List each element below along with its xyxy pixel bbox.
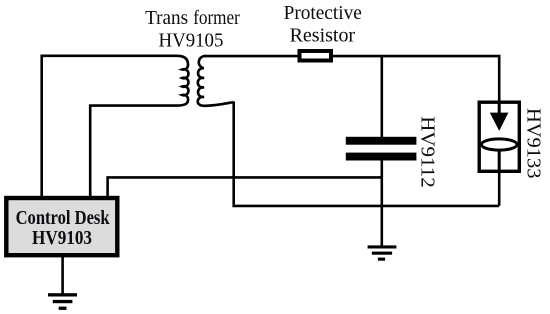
svg-text:Resistor: Resistor (290, 24, 356, 46)
svg-text:HV9133: HV9133 (523, 108, 545, 179)
wire: HV bus (secondary top through resistor to HV9133 corner) (204, 56, 499, 101)
transformer T1 HV9105 primary winding (177, 56, 188, 106)
ground symbol (control desk) (48, 293, 77, 310)
svg-text:Protective: Protective (284, 2, 362, 24)
capacitor HV9112 top plate (346, 137, 417, 145)
wire: ground bus (secondary return to HV9133) (232, 205, 499, 208)
ground symbol (capacitor node) (368, 245, 397, 260)
HV9133 internal stem lower (498, 144, 501, 171)
control desk HV9103 box (6, 198, 117, 255)
svg-text:HV9103: HV9103 (32, 227, 92, 249)
wire: secondary bottom down lead (232, 102, 235, 205)
svg-text:Control Desk: Control Desk (16, 207, 111, 229)
transformer T1 HV9105 secondary winding (198, 56, 234, 106)
HV9133 arrow stem (498, 102, 501, 119)
capacitor HV9112 bottom plate (346, 153, 417, 161)
wire: capacitor bottom to ground node (380, 159, 383, 247)
svg-text:former: former (193, 7, 240, 29)
svg-text:HV9112: HV9112 (417, 116, 439, 188)
svg-text:HV9105: HV9105 (159, 29, 224, 51)
wire: primary top lead (transformer to left drop) (42, 56, 177, 198)
wire: primary bottom lead (90, 106, 177, 198)
wire: HV9133 bottom lead (498, 172, 501, 206)
resistor: Protective Resistor (300, 51, 332, 61)
HV9133 arrow head (490, 113, 509, 131)
wire: control desk sense lead to capacitor node (108, 177, 382, 198)
measuring device HV9133 box (479, 102, 519, 171)
svg-text:Trans: Trans (145, 7, 188, 29)
wire: capacitor branch from HV bus (380, 56, 383, 138)
HV9133 electrode ellipse (481, 139, 517, 150)
wire: control desk ground lead (61, 256, 64, 294)
